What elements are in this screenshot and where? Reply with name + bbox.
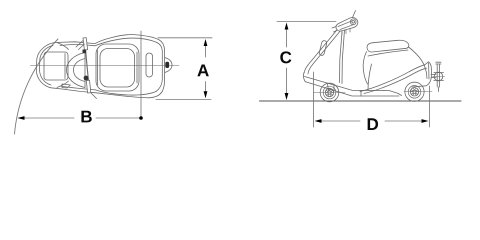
D right extension line xyxy=(429,86,431,127)
tiller boot inner arc xyxy=(74,59,86,82)
front nose face xyxy=(303,73,305,82)
floor upper edge xyxy=(305,77,402,96)
seat roll seam xyxy=(368,50,408,56)
tiller head grip marks xyxy=(332,27,337,33)
anti-tip axle line xyxy=(433,76,445,78)
front wheel hub xyxy=(328,91,331,94)
D dimension line right segment xyxy=(385,120,423,122)
anti-tip stem xyxy=(437,65,439,88)
tiller head inner line lower xyxy=(340,25,353,30)
front nose inner outline xyxy=(40,46,54,86)
rear tail inner edge xyxy=(428,63,430,79)
anti-tip bracket lines xyxy=(431,75,436,78)
D right arrowhead xyxy=(422,119,429,123)
tiller head circle inner xyxy=(352,21,355,24)
seat back cap pill xyxy=(367,40,409,52)
rear axle line xyxy=(404,91,432,93)
anti-tip lower pin xyxy=(437,87,439,92)
A dimension line upper segment xyxy=(205,44,207,57)
tiller shroud inner left edge xyxy=(308,31,340,74)
seat right side xyxy=(409,47,428,79)
seat pedestal edge xyxy=(368,64,372,90)
front wheel tire xyxy=(320,83,339,102)
body inner bottom contour xyxy=(60,86,156,95)
handlebar shaft xyxy=(85,39,90,92)
ground line xyxy=(260,100,462,102)
seat left hinge line xyxy=(97,50,99,85)
mirror stem xyxy=(353,11,356,18)
fork lines xyxy=(328,84,335,91)
front axle line xyxy=(314,92,346,94)
front basket rounded rect xyxy=(44,52,68,80)
seat outer xyxy=(96,44,139,91)
rear wheel hub xyxy=(413,90,416,93)
horizontal centerline xyxy=(31,65,180,67)
front wheel rim xyxy=(325,88,333,96)
A bottom extension line xyxy=(156,99,211,101)
tiller head xyxy=(336,18,358,32)
D left arrowhead xyxy=(315,119,322,123)
rear hitch block xyxy=(165,62,169,68)
handlebar lower grip xyxy=(86,80,91,93)
rear fender sweep upper xyxy=(360,65,425,92)
handlebar upper grip xyxy=(83,38,88,50)
rear bump semicircle xyxy=(165,58,172,73)
B dimension line right segment xyxy=(96,117,140,119)
C top extension line xyxy=(277,21,336,23)
brake lever strokes upper xyxy=(76,41,85,50)
B dimension line left segment xyxy=(24,117,74,119)
rear fender sweep lower xyxy=(364,68,427,93)
grip base block xyxy=(83,50,87,54)
tiller head circle xyxy=(350,19,356,25)
C top arrowhead xyxy=(285,23,289,30)
C bottom arrowhead xyxy=(285,93,289,100)
rear tail cover xyxy=(412,62,431,87)
label D xyxy=(368,118,378,130)
tiller head inner line upper xyxy=(338,21,352,27)
tiller slot xyxy=(319,40,327,56)
footrest flag xyxy=(62,84,71,88)
seat right hinge line xyxy=(136,52,138,83)
lower grip tail xyxy=(91,93,97,99)
A top arrowhead xyxy=(204,39,208,46)
rear wheel tire xyxy=(405,82,424,101)
tiller shroud right inner edge xyxy=(340,32,343,83)
body outline (top view) xyxy=(36,35,164,98)
C dimension line upper segment xyxy=(286,28,288,48)
rear slot pill xyxy=(146,53,153,77)
B left arrowhead xyxy=(17,116,24,120)
rear wheel rim xyxy=(410,88,418,96)
D dimension line left segment xyxy=(320,120,360,122)
front wheel bolts xyxy=(329,88,331,90)
anti-tip wheel rim ticks xyxy=(434,73,444,81)
turning radius arc xyxy=(15,39,59,134)
label B xyxy=(81,111,91,123)
head-to-shroud ticks xyxy=(342,29,350,35)
bottom frame to rear wheel xyxy=(392,95,399,97)
B extension line (rear, vertical) xyxy=(140,31,142,117)
label C xyxy=(280,51,291,63)
anti-tip cap xyxy=(436,62,441,64)
body inner top contour xyxy=(60,38,157,46)
rear wheel rim ring xyxy=(408,86,421,99)
tiller boot semicircle xyxy=(67,53,86,88)
rear right inner contour xyxy=(156,43,162,92)
front cover curve bottom xyxy=(57,81,69,88)
A dimension line lower segment xyxy=(205,82,207,95)
C dimension line lower segment xyxy=(286,68,288,95)
floor lower edge xyxy=(306,82,393,96)
floor step tick xyxy=(360,91,362,97)
front basket inner edge xyxy=(64,54,66,79)
D left extension line xyxy=(313,72,315,127)
seat left edge xyxy=(363,52,367,85)
seat cushion inner xyxy=(100,49,135,88)
tiller shroud right edge xyxy=(342,30,345,84)
anti-tip wheel xyxy=(434,72,443,81)
A top extension line xyxy=(158,37,212,39)
label A xyxy=(197,65,208,77)
rear wheel bolts xyxy=(414,88,416,90)
front wheel rim ring xyxy=(323,86,336,99)
tiller shroud left edge xyxy=(304,30,337,74)
front cover curve top xyxy=(57,43,69,50)
B end dot xyxy=(139,116,143,120)
A bottom arrowhead xyxy=(204,91,208,98)
control knob xyxy=(84,76,89,81)
